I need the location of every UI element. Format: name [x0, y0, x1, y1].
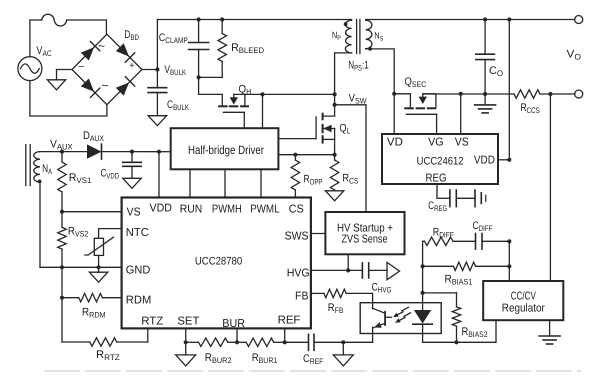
svg-text:SWS: SWS: [285, 231, 309, 243]
wire: [102, 151, 133, 153]
wire REF: [284, 328, 286, 342]
wire: [482, 240, 509, 242]
thermistor NTC: [85, 237, 114, 255]
faint cropped caption: [45, 370, 580, 372]
wire QL gate: [278, 138, 316, 140]
wire FB: [311, 292, 324, 294]
wire RUN stub: [189, 169, 191, 197]
pin VDD: [150, 203, 173, 215]
wire NTC: [99, 229, 122, 239]
capacitor CO: [476, 54, 495, 59]
wire: [198, 50, 200, 78]
svg-text:PWMH: PWMH: [212, 204, 242, 216]
wire VS24612: [460, 94, 462, 134]
node: [483, 17, 487, 21]
wire: [62, 151, 87, 153]
svg-text:Half-bridge Driver: Half-bridge Driver: [188, 143, 264, 157]
buffer triangle: [387, 262, 400, 279]
pin NTC: [126, 227, 149, 239]
wire: [132, 151, 159, 153]
wire: [185, 342, 187, 355]
svg-text:GND: GND: [126, 265, 151, 277]
svg-text:–: –: [79, 61, 85, 72]
label CO: [489, 65, 503, 78]
wire: [262, 94, 264, 128]
label RVS1: [69, 172, 92, 185]
wire: [156, 70, 158, 88]
wire: [457, 320, 497, 342]
pin RUN: [180, 204, 203, 216]
opto LED: [413, 295, 432, 342]
wire: [98, 255, 100, 272]
svg-text:RTZ: RTZ: [141, 316, 163, 328]
label RBUR1: [252, 352, 278, 365]
wire: [323, 105, 334, 116]
wire: [199, 77, 223, 105]
bridge rectifier DBD diamond: [72, 34, 142, 105]
wire: [343, 341, 372, 343]
svg-text:VG: VG: [428, 136, 444, 148]
wire VDD: [498, 159, 509, 161]
wire: [484, 20, 486, 54]
label CDIFF: [473, 220, 493, 233]
bridge diode upper-right: [116, 43, 135, 62]
node: [346, 268, 350, 272]
svg-text:UCC28780: UCC28780: [195, 256, 242, 268]
wire: [40, 182, 122, 267]
node: [283, 340, 287, 344]
label UCC24612: [417, 155, 464, 167]
terminal VO+: [575, 16, 583, 24]
label DAUX: [83, 130, 105, 143]
resistor RCCS: [514, 90, 540, 98]
wire: [61, 267, 63, 297]
wire: [159, 151, 171, 153]
pin CS: [289, 204, 304, 216]
wire: [30, 81, 107, 116]
node: [220, 17, 224, 21]
label QL: [339, 123, 350, 136]
wire VD: [393, 94, 395, 134]
label ROPP: [304, 174, 323, 187]
wire: [456, 197, 475, 199]
svg-text:~: ~: [102, 79, 109, 93]
wire: [335, 105, 366, 212]
wire PWMH stub: [224, 169, 226, 197]
terminal VO-: [575, 90, 583, 98]
capacitor CREF: [309, 334, 315, 350]
label QH: [238, 84, 251, 97]
node: [97, 265, 101, 269]
node VSW: [333, 103, 337, 107]
node: [507, 264, 511, 268]
wire: [274, 341, 285, 343]
label DBD: [124, 29, 139, 42]
node: [421, 264, 425, 268]
capacitor CREG: [450, 190, 456, 207]
wire: [314, 341, 343, 343]
wire: [263, 93, 335, 95]
wire BUR: [236, 328, 238, 342]
resistor RBIAS1: [453, 262, 475, 270]
wire: [245, 93, 263, 95]
fuse: [42, 14, 67, 26]
wire: [549, 320, 551, 336]
wire: [295, 154, 334, 156]
label RVS2: [68, 226, 89, 239]
node: [548, 92, 552, 96]
label ZVS Sense: [342, 234, 388, 246]
ground: [123, 178, 141, 188]
svg-text:ZVS Sense: ZVS Sense: [342, 234, 388, 246]
wire PWML stub: [260, 169, 262, 197]
half-bridge driver box: [171, 128, 279, 169]
bridge ~ mark top: [98, 39, 105, 53]
svg-text:VS: VS: [455, 136, 469, 148]
capacitor CHVG: [362, 263, 368, 278]
pin SWS: [285, 231, 309, 243]
aux winding NA: [34, 152, 40, 182]
node: [260, 92, 264, 96]
node: [507, 17, 511, 21]
wire SWS: [311, 233, 326, 235]
label Half-bridge Driver: [188, 143, 264, 157]
label CCLAMP: [159, 32, 188, 45]
resistor RVS2: [58, 212, 66, 268]
transformer core: [357, 20, 360, 54]
opto phototransistor: [373, 308, 392, 342]
wire RTZ: [117, 328, 148, 342]
ground: [539, 336, 560, 344]
capacitor CREG2: [475, 190, 486, 207]
capacitor CBULK: [148, 88, 167, 93]
wire: [40, 151, 62, 153]
label NA: [42, 163, 52, 176]
bridge diode upper-left: [81, 42, 100, 61]
wire: [453, 240, 476, 242]
wire: [549, 94, 551, 281]
label HV Startup +: [337, 223, 393, 235]
wire: [142, 69, 158, 71]
pin BUR: [222, 318, 245, 330]
bridge + mark right: [129, 61, 135, 72]
svg-text:CC/CV: CC/CV: [511, 291, 536, 303]
svg-text:RDM: RDM: [126, 295, 152, 307]
svg-text:HVG: HVG: [287, 268, 310, 280]
svg-text:~: ~: [98, 39, 105, 53]
svg-text:REG: REG: [426, 172, 447, 184]
node: [157, 150, 161, 154]
primary phase dot: [344, 22, 348, 26]
pin RTZ: [141, 316, 163, 328]
wire REG: [437, 184, 450, 198]
wire: [369, 269, 387, 271]
wire: [334, 94, 336, 104]
capacitor CDIFF: [476, 234, 483, 250]
capacitor CVDD: [123, 152, 142, 167]
ac source VAC: [18, 57, 42, 81]
svg-text:RUN: RUN: [180, 204, 203, 216]
chip UCC28780 box: [122, 198, 311, 329]
pin FB: [295, 291, 309, 303]
CC/CV regulator box: [483, 281, 563, 320]
wire: [30, 20, 42, 57]
svg-text:CS: CS: [289, 204, 304, 216]
optocoupler box: [360, 303, 441, 334]
wire: [423, 341, 457, 343]
svg-text:UCC24612: UCC24612: [417, 155, 464, 167]
wire: [67, 20, 107, 34]
pin SET: [177, 316, 199, 328]
svg-text:BUR: BUR: [222, 318, 245, 330]
label CBULK: [167, 99, 190, 112]
wire secondary rail: [366, 19, 575, 21]
wire: [540, 93, 575, 95]
resistor RRTZ: [90, 338, 117, 346]
wire HVG: [311, 269, 362, 271]
pin VD: [387, 136, 403, 148]
ground: [176, 355, 196, 366]
node: [197, 75, 201, 79]
transformer primary NP: [345, 20, 351, 53]
node: [235, 340, 239, 344]
wire VBULK rail: [157, 20, 351, 70]
label VO: [567, 49, 582, 62]
resistor RDIFF: [425, 237, 454, 245]
ground: [148, 116, 166, 126]
svg-text:FB: FB: [295, 291, 309, 303]
label NP: [332, 30, 341, 42]
transistor QL: [316, 114, 335, 155]
label VAC: [36, 45, 51, 58]
node: [184, 340, 188, 344]
svg-text:REF: REF: [278, 315, 301, 327]
label RCCS: [521, 102, 540, 115]
capacitor CCLAMP: [189, 43, 209, 50]
pin GND: [126, 265, 151, 277]
node: [293, 153, 297, 157]
wire: [156, 93, 158, 116]
wire VS: [62, 211, 122, 213]
wire: [199, 62, 223, 78]
wire: [366, 49, 395, 94]
pin PWML: [250, 204, 280, 216]
wire VDD stub: [158, 152, 160, 198]
resistor ROPP: [291, 155, 299, 198]
wire QSEC gate: [436, 114, 438, 134]
label RRDM: [82, 307, 106, 320]
wire: [423, 265, 454, 267]
resistor RBLEED: [218, 34, 226, 62]
svg-text:VDD: VDD: [474, 155, 495, 167]
label Regulator: [502, 303, 545, 315]
pin RDM: [126, 295, 152, 307]
node: [459, 92, 463, 96]
node: [333, 153, 337, 157]
bridge ~ mark bottom: [102, 79, 109, 93]
opto light arrows: [393, 307, 411, 323]
HV startup + ZVS sense box: [325, 212, 404, 254]
wire: [346, 293, 372, 308]
wire: [335, 53, 352, 95]
node: [421, 291, 425, 295]
wire: [62, 298, 90, 342]
label VSW: [349, 93, 367, 106]
wire: [228, 341, 237, 343]
wire: [57, 70, 73, 80]
resistor RBUR2: [199, 338, 228, 346]
wire: [186, 341, 199, 343]
wire: [62, 297, 79, 299]
label RFB: [328, 302, 344, 315]
pin REG: [426, 172, 447, 184]
resistor RFB: [324, 289, 346, 297]
bridge diode lower-left: [81, 79, 100, 98]
label RRTZ: [96, 349, 120, 362]
node: [483, 92, 487, 96]
aux winding core: [26, 145, 30, 186]
label RBIAS1: [445, 274, 473, 287]
pin HVG: [287, 268, 310, 280]
node: [130, 150, 134, 154]
label RBIAS2: [462, 326, 488, 339]
wire SET: [185, 328, 187, 342]
wire: [347, 254, 349, 270]
secondary phase dot: [368, 47, 372, 51]
diode DAUX: [87, 144, 102, 159]
node: [197, 17, 201, 21]
pin VG: [428, 136, 444, 148]
ground: [475, 105, 496, 113]
label RCS: [342, 173, 358, 186]
label RBLEED: [231, 42, 264, 55]
label VBULK: [164, 64, 186, 77]
wire: [476, 265, 510, 267]
transistor QSEC: [405, 94, 436, 115]
wire: [508, 241, 510, 281]
label NPS:1: [348, 59, 368, 72]
node VBULK: [155, 67, 159, 71]
pin VS: [455, 136, 469, 148]
wire: [423, 292, 457, 294]
wire: [198, 20, 200, 43]
label CREF: [303, 353, 323, 366]
node: [60, 296, 64, 300]
wire: [278, 154, 295, 156]
transformer secondary NS: [366, 20, 372, 49]
label UCC28780: [195, 256, 242, 268]
svg-text:VS: VS: [127, 206, 141, 218]
wire: [342, 342, 344, 355]
svg-text:SET: SET: [177, 316, 199, 328]
wire: [221, 20, 223, 34]
node: [454, 340, 458, 344]
label CVDD: [101, 168, 120, 181]
bridge - mark left: [79, 61, 85, 72]
label QSEC: [404, 76, 426, 89]
svg-text:Regulator: Regulator: [502, 303, 545, 315]
wire RDM: [102, 297, 121, 299]
pin PWMH: [212, 204, 242, 216]
pin REF: [278, 315, 301, 327]
node: [507, 158, 511, 162]
bridge diode lower-right: [116, 77, 135, 96]
pin VDD: [474, 155, 495, 167]
ground: [325, 191, 343, 201]
svg-text:PWML: PWML: [250, 204, 280, 216]
resistor RBUR1: [246, 338, 274, 346]
label CHVG: [372, 282, 392, 295]
wire QH gate: [243, 112, 245, 128]
svg-text:VDD: VDD: [150, 203, 173, 215]
label RDIFF: [433, 227, 454, 240]
wire: [285, 341, 309, 343]
wire: [237, 341, 246, 343]
ground: [47, 80, 65, 90]
ground: [89, 272, 107, 282]
pin VS: [127, 206, 141, 218]
label RBUR2: [205, 352, 232, 365]
svg-text:VD: VD: [387, 136, 403, 148]
svg-text:+: +: [129, 61, 135, 72]
chip UCC24612 box: [382, 134, 498, 184]
node: [333, 92, 337, 96]
wire: [394, 94, 410, 108]
node: [507, 239, 511, 243]
resistor RCS: [330, 155, 338, 191]
node VS: [60, 210, 64, 214]
label CC/CV: [511, 291, 536, 303]
wire: [484, 94, 486, 105]
label NS: [374, 31, 384, 43]
wire: [423, 93, 514, 95]
wire: [484, 60, 486, 94]
aux phase dot: [38, 180, 42, 184]
ground: [333, 355, 353, 366]
label VAUX: [50, 139, 73, 152]
wire: [131, 166, 133, 178]
node: [341, 340, 345, 344]
wire: [423, 241, 425, 293]
resistor RBIAS2: [452, 293, 460, 342]
label CREG: [428, 200, 447, 213]
svg-text:NTC: NTC: [126, 227, 149, 239]
resistor RRDM: [79, 294, 103, 302]
node: [60, 265, 64, 269]
resistor RVS1: [58, 152, 66, 212]
node: [392, 92, 396, 96]
node VAUX: [60, 150, 64, 154]
transistor QH: [219, 94, 248, 112]
wire VDD rail: [508, 20, 510, 160]
